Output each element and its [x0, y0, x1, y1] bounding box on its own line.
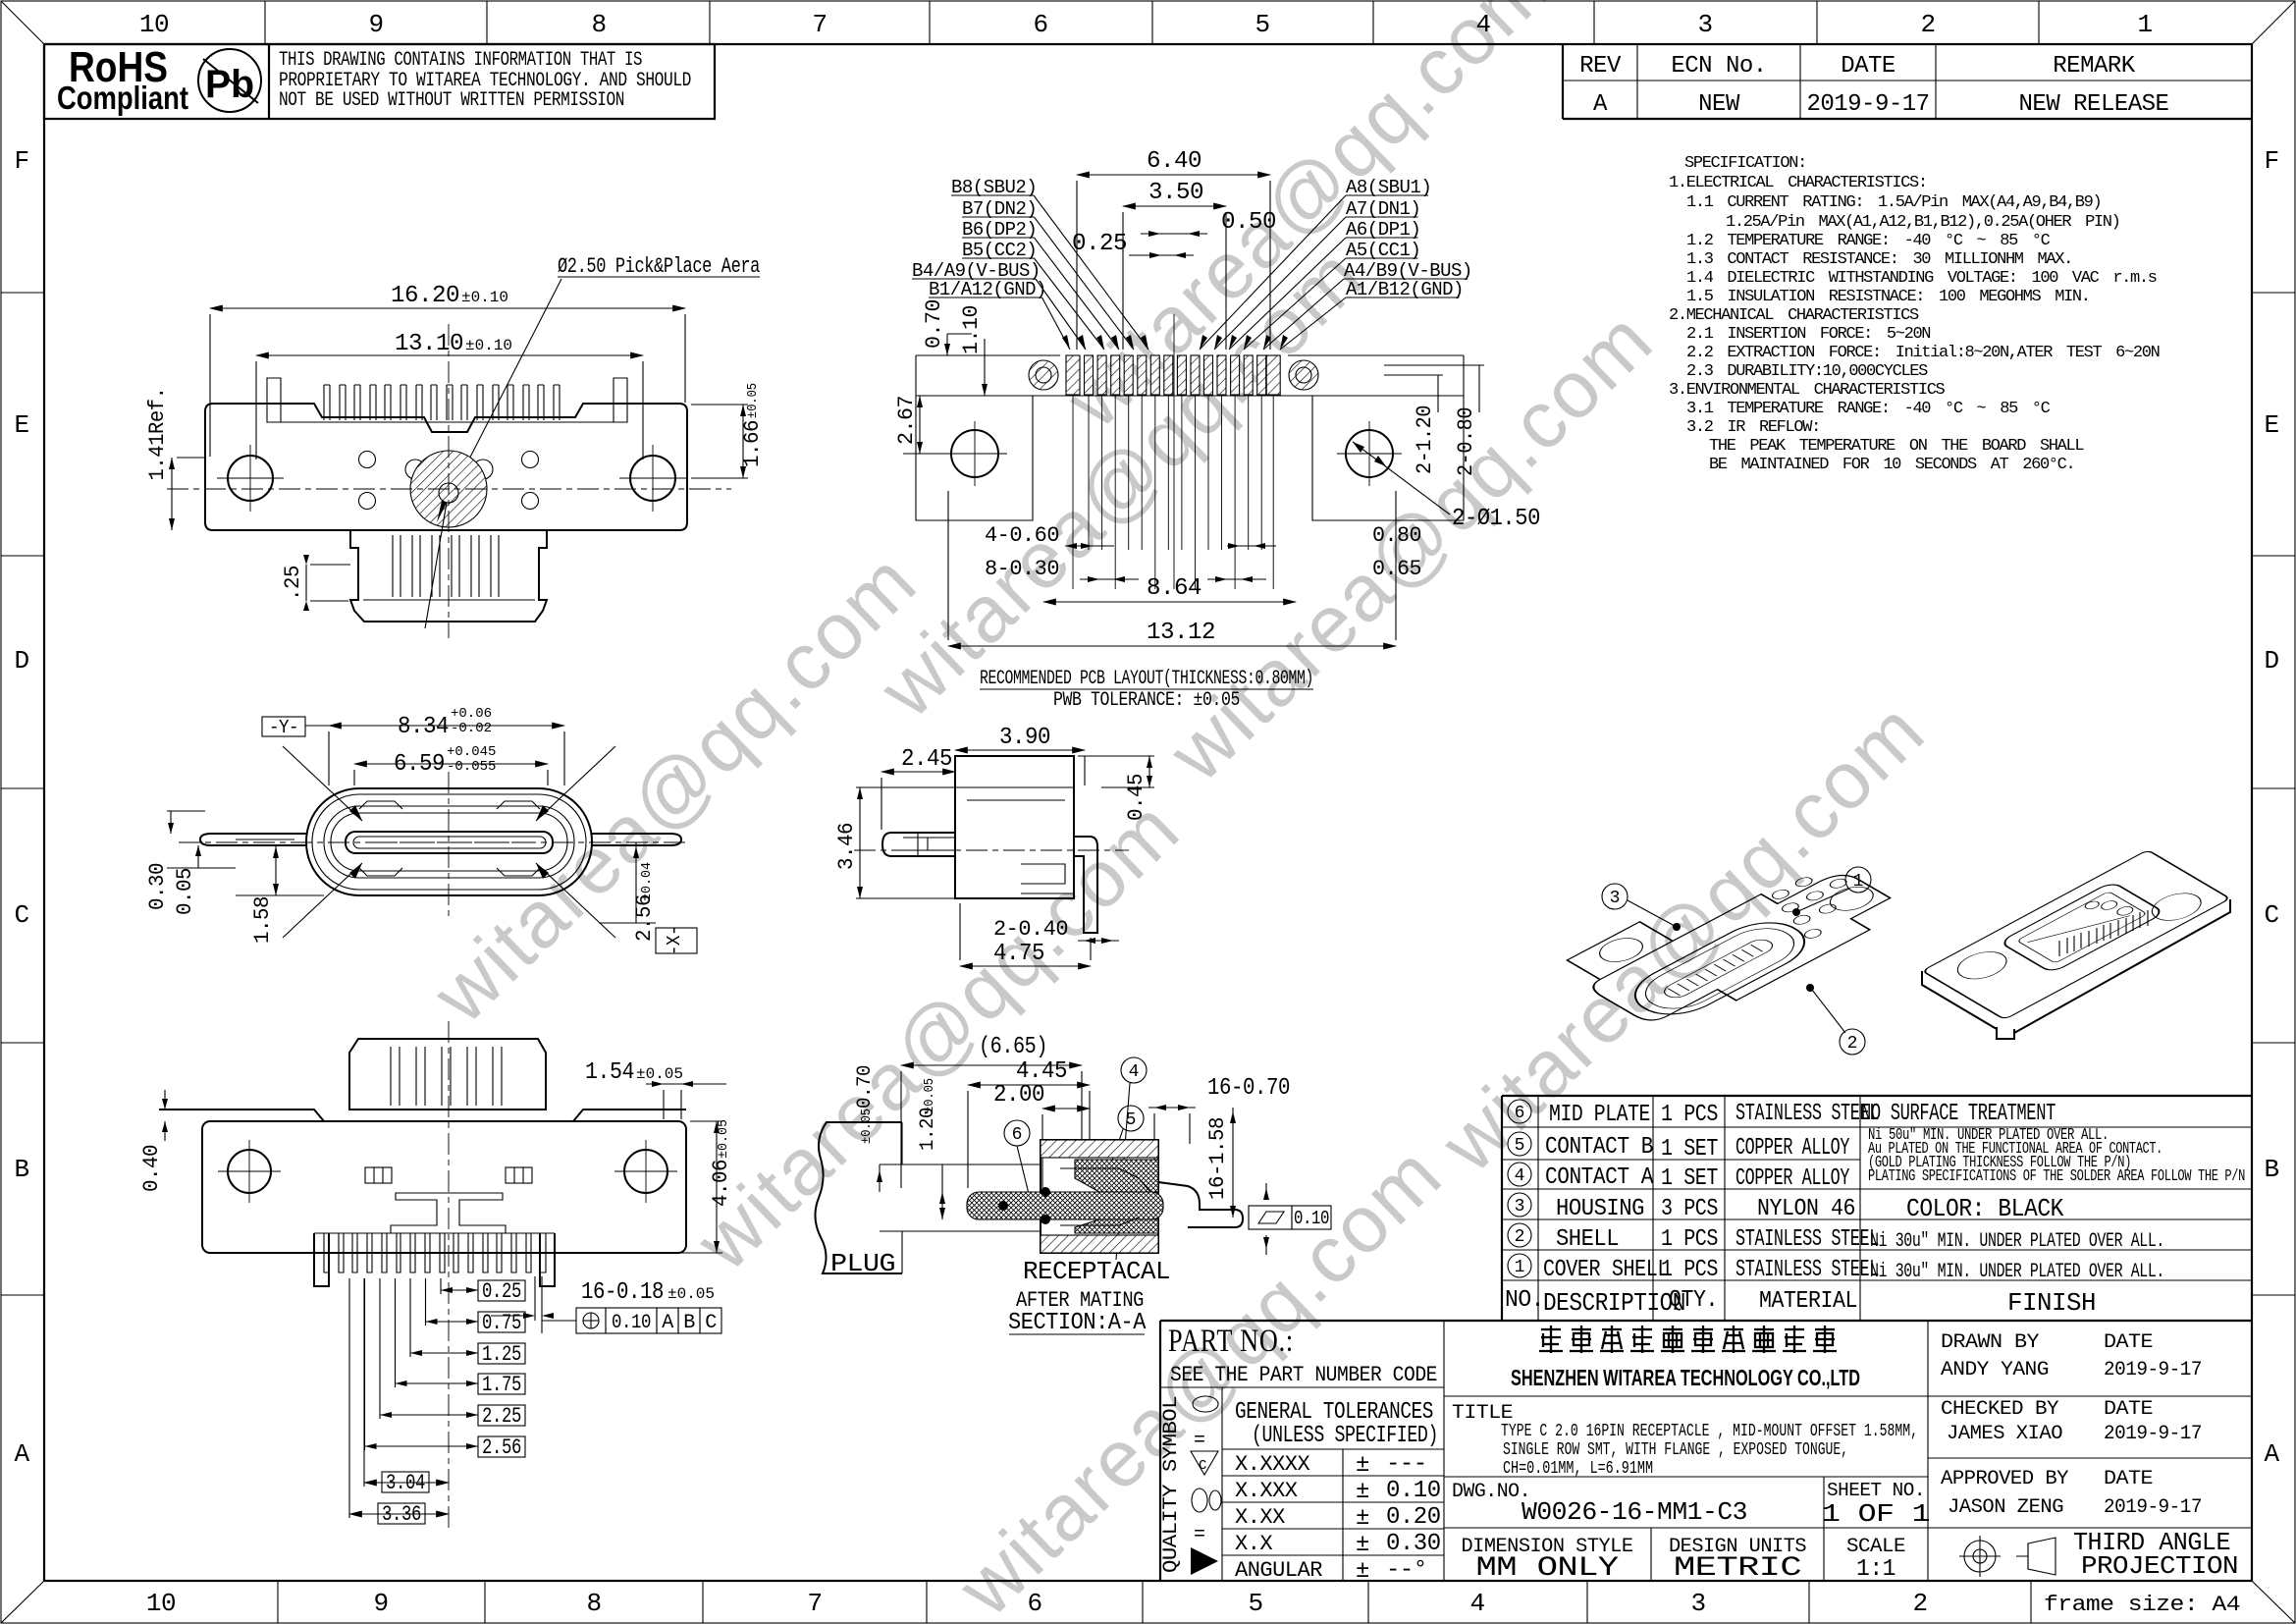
svg-text:2019-9-17: 2019-9-17	[2104, 1496, 2202, 1519]
svg-text:0.25: 0.25	[482, 1279, 521, 1304]
svg-text:---: ---	[1386, 1451, 1427, 1478]
svg-text:6.40: 6.40	[1147, 148, 1201, 175]
view2 big holes	[951, 430, 998, 477]
svg-text:RECOMMENDED PCB LAYOUT(THICKNE: RECOMMENDED PCB LAYOUT(THICKNESS:0.80MM)	[980, 668, 1313, 690]
svg-text:2-Ø1.50: 2-Ø1.50	[1452, 506, 1540, 532]
svg-text:NO.: NO.	[1505, 1287, 1544, 1314]
svg-text:0.05: 0.05	[173, 868, 197, 915]
svg-text:±0.05: ±0.05	[859, 1109, 875, 1144]
svg-text:FINISH: FINISH	[2007, 1288, 2096, 1318]
svg-text:10: 10	[139, 10, 169, 39]
svg-text:CH=0.01MM, L=6.91MM: CH=0.01MM, L=6.91MM	[1503, 1459, 1653, 1479]
svg-text:METRIC: METRIC	[1674, 1553, 1801, 1584]
svg-text:DATE: DATE	[2104, 1331, 2153, 1354]
view7 plug shell lines	[901, 1122, 903, 1164]
svg-text:2: 2	[1920, 10, 1935, 39]
svg-text:4.06: 4.06	[709, 1160, 733, 1207]
svg-text:5: 5	[1255, 10, 1269, 39]
svg-text:PWB TOLERANCE: ±0.05: PWB TOLERANCE: ±0.05	[1053, 689, 1240, 712]
svg-text:DATE: DATE	[2104, 1468, 2153, 1490]
svg-text:+0.045: +0.045	[447, 744, 496, 760]
svg-text:1 OF 1: 1 OF 1	[1822, 1499, 1930, 1529]
svg-text:DWG.NO.: DWG.NO.	[1452, 1481, 1530, 1503]
svg-text:MATERIAL: MATERIAL	[1759, 1288, 1857, 1315]
svg-text:13.10: 13.10	[395, 331, 463, 357]
svg-text:RECEPTACAL: RECEPTACAL	[1023, 1257, 1170, 1286]
view2 dim 0.25	[1129, 254, 1194, 256]
svg-text:STAINLESS STEEL: STAINLESS STEEL	[1735, 1257, 1879, 1283]
svg-text:0.70: 0.70	[854, 1065, 877, 1109]
view4 dim 2.45	[881, 771, 955, 773]
svg-text:1.41Ref.: 1.41Ref.	[145, 388, 170, 481]
svg-text:SHENZHEN WITAREA TECHNOLOGY CO: SHENZHEN WITAREA TECHNOLOGY CO.,LTD	[1511, 1365, 1860, 1390]
view1 small holes	[359, 452, 376, 468]
view2 2-dia1.50 leader	[1353, 442, 1450, 514]
svg-text:X.XX: X.XX	[1235, 1505, 1285, 1530]
svg-text:(6.65): (6.65)	[979, 1034, 1047, 1060]
svg-text:0.25: 0.25	[1072, 231, 1127, 257]
svg-text:F: F	[2264, 146, 2278, 176]
svg-text:4: 4	[1515, 1166, 1525, 1186]
svg-text:MID PLATE: MID PLATE	[1549, 1102, 1650, 1128]
view7 flatness frame	[1249, 1206, 1292, 1229]
svg-text:1: 1	[1515, 1258, 1525, 1277]
view4 body	[955, 756, 1074, 898]
svg-text:7: 7	[812, 10, 827, 39]
iso left balloon 3	[1602, 884, 1628, 909]
view1 mounting holes	[228, 456, 273, 501]
view2 center vertical line	[1173, 314, 1175, 589]
svg-text:8.64: 8.64	[1147, 575, 1201, 602]
BOM table grid	[1502, 1095, 2252, 1097]
view4 tongue left	[882, 833, 955, 856]
view6 left wing line	[159, 1110, 324, 1121]
view1 lower body	[350, 530, 547, 622]
view2 right cutout rect	[1312, 396, 1464, 520]
svg-text:SECTION:A-A: SECTION:A-A	[1008, 1310, 1147, 1336]
svg-text:Ø2.50 Pick&Place Aera: Ø2.50 Pick&Place Aera	[558, 254, 760, 279]
svg-text:=: =	[1194, 1524, 1205, 1546]
view1 dim 16.20	[210, 307, 685, 309]
svg-text:2: 2	[1847, 1034, 1858, 1054]
svg-text:2-1.20: 2-1.20	[1413, 406, 1437, 474]
svg-text:C: C	[14, 900, 28, 930]
view6 small rect windows	[365, 1167, 392, 1183]
svg-text:0.50: 0.50	[1221, 209, 1276, 236]
title block outer lines	[1159, 1321, 1161, 1581]
svg-text:COPPER ALLOY: COPPER ALLOY	[1735, 1135, 1849, 1162]
svg-text:-Y-: -Y-	[269, 717, 298, 738]
svg-text:2-0.80: 2-0.80	[1454, 407, 1478, 476]
svg-text:2019-9-17: 2019-9-17	[2104, 1423, 2202, 1445]
svg-text:7: 7	[807, 1589, 822, 1618]
svg-text:1.25A/Pin MAX(A1,A12,B1,B12),0: 1.25A/Pin MAX(A1,A12,B1,B12),0.25A(OHER …	[1726, 213, 2119, 232]
svg-text:1.3 CONTACT RESISTANCE: 30 MIL: 1.3 CONTACT RESISTANCE: 30 MILLIONHM MAX…	[1686, 250, 2072, 269]
view1 comb pins	[281, 421, 618, 423]
svg-text:B: B	[683, 1312, 695, 1334]
view3 -Y- datum box	[262, 717, 305, 736]
quality symbol column	[1221, 1387, 1223, 1581]
svg-text:16-0.18: 16-0.18	[581, 1279, 664, 1306]
view6 center I-beam slot	[391, 1193, 506, 1233]
svg-text:3.50: 3.50	[1148, 180, 1203, 206]
view7 plug outline	[815, 1122, 902, 1273]
svg-text:NYLON 46: NYLON 46	[1757, 1196, 1855, 1222]
view6 pitch ladder	[478, 1280, 525, 1301]
view1 dim 13.10	[256, 354, 643, 356]
view2 hatched pads	[1066, 355, 1280, 395]
svg-text:C: C	[705, 1312, 717, 1334]
svg-text:5: 5	[1515, 1136, 1525, 1156]
svg-text:3.46: 3.46	[834, 823, 859, 870]
view2 dim 13.12	[948, 645, 1396, 647]
general tolerances box	[1222, 1448, 1444, 1450]
svg-text:-0.055: -0.055	[447, 759, 496, 775]
svg-text:QTY.: QTY.	[1669, 1287, 1718, 1314]
svg-text:2.25: 2.25	[482, 1404, 521, 1429]
view7 receptacle block	[1041, 1140, 1158, 1253]
svg-text:4.75: 4.75	[993, 941, 1044, 967]
view1 centerlines	[448, 324, 450, 638]
svg-text:16-1.58: 16-1.58	[1205, 1117, 1230, 1200]
Pb crossed circle	[198, 49, 261, 112]
svg-text:16.20: 16.20	[391, 283, 459, 309]
svg-text:Ni 30u" MIN. UNDER PLATED OVER: Ni 30u" MIN. UNDER PLATED OVER ALL.	[1870, 1261, 2164, 1283]
svg-text:A: A	[2264, 1439, 2279, 1469]
svg-text:3: 3	[1697, 10, 1712, 39]
svg-text:0.40: 0.40	[139, 1145, 164, 1192]
svg-text:1.1 CURRENT RATING: 1.5A/Pin M: 1.1 CURRENT RATING: 1.5A/Pin MAX(A4,A9,B…	[1686, 193, 2101, 212]
svg-text:D: D	[2264, 646, 2278, 676]
svg-text:4.45: 4.45	[1016, 1058, 1067, 1085]
svg-text:1.66: 1.66	[740, 420, 765, 467]
svg-text:B: B	[2264, 1155, 2278, 1184]
view3 corner leader lines	[283, 746, 362, 821]
svg-text:+0.06: +0.06	[451, 706, 492, 722]
svg-text:2.2 EXTRACTION FORCE: Initial:: 2.2 EXTRACTION FORCE: Initial:8~20N,ATER…	[1686, 344, 2160, 362]
view3 left wing	[200, 834, 306, 845]
view3 centerlines	[448, 772, 450, 921]
svg-text:THE PEAK TEMPERATURE ON THE BO: THE PEAK TEMPERATURE ON THE BOARD SHALL	[1709, 437, 2084, 456]
svg-text:-0.02: -0.02	[451, 721, 492, 736]
view2 left cutout rect	[916, 396, 1033, 520]
svg-text:1:1: 1:1	[1856, 1556, 1896, 1583]
view3 dim 8.34	[329, 725, 564, 727]
svg-text:±0.05: ±0.05	[745, 383, 761, 418]
svg-text:4-0.60: 4-0.60	[985, 523, 1059, 548]
svg-text:W0026-16-MM1-C3: W0026-16-MM1-C3	[1522, 1497, 1747, 1527]
svg-text:±0.05: ±0.05	[636, 1065, 683, 1083]
svg-text:SPECIFICATION:: SPECIFICATION:	[1684, 154, 1806, 173]
view6 dim 3.04	[382, 1472, 429, 1492]
svg-text:1.2 TEMPERATURE RANGE: -40 °C: 1.2 TEMPERATURE RANGE: -40 °C ~ 85 °C	[1686, 232, 2051, 250]
svg-text:±: ±	[1356, 1452, 1369, 1479]
view6 centerline vertical	[448, 1021, 450, 1532]
view3 dim 6.59	[354, 763, 548, 765]
iso right plate thickness	[1922, 899, 2230, 1039]
svg-text:3.1 TEMPERATURE RANGE: -40 °C: 3.1 TEMPERATURE RANGE: -40 °C ~ 85 °C	[1686, 400, 2051, 418]
svg-text:6: 6	[1033, 10, 1047, 39]
svg-text:GENERAL TOLERANCES: GENERAL TOLERANCES	[1235, 1399, 1433, 1426]
svg-text:2.56: 2.56	[482, 1435, 521, 1460]
svg-text:CONTACT A: CONTACT A	[1545, 1164, 1654, 1191]
svg-text:X.XXXX: X.XXXX	[1235, 1452, 1310, 1477]
svg-text:=: =	[1194, 1430, 1205, 1452]
view2 pad extension lines down	[1072, 396, 1074, 589]
svg-text:1 SET: 1 SET	[1661, 1165, 1718, 1192]
view4 dim 3.90	[955, 749, 1085, 751]
svg-text:ECN No.: ECN No.	[1671, 53, 1766, 80]
svg-text:MM ONLY: MM ONLY	[1476, 1553, 1620, 1584]
view6 mounting holes	[228, 1150, 271, 1193]
svg-text:0.10: 0.10	[1294, 1208, 1329, 1229]
corner diagonals	[1, 1, 44, 44]
svg-text:±0.05: ±0.05	[922, 1078, 937, 1113]
svg-text:JASON ZENG: JASON ZENG	[1948, 1496, 2063, 1519]
view4 inner step details	[1021, 864, 1074, 893]
svg-text:A: A	[662, 1312, 673, 1334]
svg-text:Ni 30u" MIN. UNDER PLATED OVER: Ni 30u" MIN. UNDER PLATED OVER ALL.	[1870, 1230, 2164, 1253]
view2 dim 6.40	[1077, 174, 1270, 176]
bottom zone band dividers	[277, 1581, 279, 1623]
dwg no box	[1444, 1527, 2252, 1529]
svg-text:2019-9-17: 2019-9-17	[1806, 91, 1929, 118]
svg-text:DESCRIPTION: DESCRIPTION	[1543, 1288, 1685, 1318]
svg-text:A: A	[1593, 91, 1608, 118]
view2 pad strip outline	[916, 354, 1060, 356]
iso left balloon 1	[1845, 867, 1871, 893]
svg-text:C: C	[2264, 900, 2278, 930]
svg-text:-X-: -X-	[664, 926, 685, 955]
svg-text:frame size: A4: frame size: A4	[2044, 1593, 2240, 1617]
svg-text:--°: --°	[1386, 1557, 1427, 1584]
svg-text:DATE: DATE	[1841, 53, 1896, 80]
drawn/checked/approved boxes	[1928, 1457, 2252, 1459]
svg-text:ANGULAR: ANGULAR	[1235, 1558, 1322, 1583]
svg-text:2.MECHANICAL CHARACTERISTICS: 2.MECHANICAL CHARACTERISTICS	[1669, 306, 1919, 325]
svg-text:1.4 DIELECTRIC WITHSTANDING VO: 1.4 DIELECTRIC WITHSTANDING VOLTAGE: 100…	[1686, 269, 2157, 288]
svg-text:9: 9	[368, 10, 383, 39]
view2 dim 8.64	[1043, 601, 1296, 603]
svg-text:COPPER ALLOY: COPPER ALLOY	[1735, 1165, 1849, 1192]
svg-text:2: 2	[1515, 1227, 1525, 1247]
view3 latch bumps	[359, 801, 402, 809]
svg-text:B: B	[14, 1155, 28, 1184]
top zone band dividers	[264, 1, 266, 44]
svg-text:APPROVED BY: APPROVED BY	[1941, 1468, 2069, 1490]
svg-text:SHEET NO.: SHEET NO.	[1827, 1480, 1925, 1501]
svg-text:DRAWN BY: DRAWN BY	[1941, 1331, 2040, 1354]
svg-text:Pb: Pb	[205, 63, 254, 106]
svg-text:QUALITY SYMBOL: QUALITY SYMBOL	[1160, 1396, 1183, 1573]
svg-text:8.34: 8.34	[398, 714, 449, 740]
svg-text:SHELL: SHELL	[1556, 1226, 1619, 1253]
svg-text:3: 3	[1515, 1197, 1525, 1217]
svg-text:2.45: 2.45	[901, 746, 952, 773]
view7 top hatched slab	[1041, 1140, 1158, 1158]
svg-text:PLATING SPECIFICATIONS OF THE: PLATING SPECIFICATIONS OF THE SOLDER ARE…	[1868, 1167, 2245, 1186]
svg-text:DATE: DATE	[2104, 1398, 2153, 1421]
view6 right wing line	[573, 1110, 686, 1121]
view4 dim 4.75	[960, 965, 1091, 967]
isometric view right	[1922, 850, 2230, 1020]
svg-text:4: 4	[1469, 1589, 1484, 1618]
svg-text:COVER SHELL: COVER SHELL	[1543, 1257, 1669, 1283]
svg-text:2: 2	[1912, 1589, 1927, 1618]
svg-text:3.90: 3.90	[999, 725, 1050, 751]
view1 flange outline	[205, 404, 687, 530]
svg-text:1.ELECTRICAL CHARACTERISTICS:: 1.ELECTRICAL CHARACTERISTICS:	[1669, 174, 1927, 192]
svg-text:0.30: 0.30	[1386, 1531, 1441, 1557]
view6 dim 3.36	[378, 1503, 425, 1524]
svg-text:CHECKED BY: CHECKED BY	[1941, 1398, 2059, 1421]
svg-text:0.75: 0.75	[482, 1311, 521, 1335]
svg-text:10: 10	[146, 1589, 176, 1618]
quality symbols	[1193, 1396, 1218, 1412]
svg-text:2.00: 2.00	[993, 1082, 1044, 1109]
svg-text:8-0.30: 8-0.30	[985, 557, 1059, 581]
svg-text:0.65: 0.65	[1372, 557, 1421, 581]
view1 leader to center hole	[425, 503, 447, 628]
view7 balloons 4,5,6	[1121, 1057, 1147, 1083]
view7 inner contact details	[1060, 1168, 1150, 1225]
view4 right wing hook	[1074, 837, 1097, 933]
svg-text:D: D	[14, 646, 28, 676]
svg-text:16-0.70: 16-0.70	[1207, 1075, 1290, 1102]
svg-text:3: 3	[1610, 889, 1621, 908]
svg-text:0.45: 0.45	[1124, 774, 1148, 821]
svg-text:3.ENVIRONMENTAL CHARACTERISTI: 3.ENVIRONMENTAL CHARACTERISTICS	[1669, 381, 1946, 400]
svg-text:0.10: 0.10	[612, 1312, 651, 1334]
svg-text:8: 8	[591, 10, 606, 39]
svg-text:3: 3	[1690, 1589, 1705, 1618]
svg-text:SCALE: SCALE	[1846, 1536, 1905, 1558]
svg-text:JAMES XIAO: JAMES XIAO	[1947, 1423, 2062, 1445]
svg-text:(UNLESS SPECIFIED): (UNLESS SPECIFIED)	[1252, 1423, 1438, 1449]
svg-text:A: A	[14, 1439, 29, 1469]
view2 ring pads	[1029, 360, 1058, 390]
svg-text:±0.05: ±0.05	[716, 1119, 731, 1159]
right zone dividers	[2252, 292, 2295, 294]
svg-text:E: E	[14, 410, 28, 440]
view1 hatched pick circle	[410, 451, 487, 527]
iso right pin teeth	[2059, 910, 2148, 956]
svg-text:±0.10: ±0.10	[465, 337, 512, 354]
svg-text:1.5 INSULATION RESISTNACE: 100: 1.5 INSULATION RESISTNACE: 100 MEGOHMS M…	[1686, 288, 2090, 306]
svg-text:8: 8	[586, 1589, 601, 1618]
svg-text:NO SURFACE TREATMENT: NO SURFACE TREATMENT	[1861, 1101, 2056, 1127]
chinese company name (pseudo glyphs)	[1539, 1326, 1563, 1353]
svg-text:1.25: 1.25	[482, 1342, 521, 1367]
view2 dim 3.50	[1123, 205, 1226, 207]
left zone dividers	[1, 292, 44, 294]
svg-text:REV: REV	[1579, 53, 1622, 80]
svg-text:NEW RELEASE: NEW RELEASE	[2019, 91, 2169, 118]
svg-text:2.67: 2.67	[894, 396, 919, 445]
svg-text:NEW: NEW	[1698, 91, 1740, 118]
svg-text:1 PCS: 1 PCS	[1661, 1257, 1718, 1283]
svg-text:REMARK: REMARK	[2053, 53, 2136, 80]
svg-text:THIS DRAWING CONTAINS INFORMAT: THIS DRAWING CONTAINS INFORMATION THAT I…	[279, 49, 642, 72]
title box	[1444, 1476, 1928, 1478]
company box	[1444, 1395, 2252, 1397]
svg-text:HOUSING: HOUSING	[1556, 1196, 1644, 1222]
view6 bottom pin comb	[314, 1232, 555, 1234]
svg-text:9: 9	[373, 1589, 388, 1618]
svg-text:±0.04: ±0.04	[639, 862, 655, 901]
view3 right wing	[592, 834, 681, 845]
svg-text:1: 1	[1853, 872, 1864, 892]
svg-text:0.80: 0.80	[1372, 523, 1421, 548]
svg-text:PLUG: PLUG	[830, 1249, 895, 1278]
svg-text:6.59: 6.59	[394, 751, 445, 778]
svg-text:TYPE C 2.0 16PIN RECEPTACLE ,: TYPE C 2.0 16PIN RECEPTACLE , MID-MOUNT …	[1501, 1422, 1918, 1441]
svg-text:±: ±	[1356, 1532, 1369, 1558]
svg-text:±0.10: ±0.10	[461, 289, 508, 306]
view7 right contact hook	[1158, 1182, 1243, 1227]
svg-text:C: C	[1199, 1458, 1206, 1474]
svg-text:3 PCS: 3 PCS	[1661, 1196, 1718, 1222]
svg-text:SINGLE ROW SMT, WITH FLANGE ,: SINGLE ROW SMT, WITH FLANGE , EXPOSED TO…	[1503, 1440, 1848, 1460]
view6 top connector block	[349, 1039, 546, 1110]
svg-text:1.54: 1.54	[585, 1059, 634, 1086]
isometric view left	[1553, 840, 1909, 1035]
svg-text:±: ±	[1356, 1505, 1369, 1532]
svg-text:1 PCS: 1 PCS	[1661, 1226, 1718, 1253]
view3 tongue	[346, 832, 553, 853]
tolerance rows	[1342, 1449, 1344, 1581]
BOM circled item numbers	[1508, 1100, 1531, 1123]
svg-text:0.70: 0.70	[922, 299, 946, 349]
svg-text:STAINLESS STEEL: STAINLESS STEEL	[1735, 1226, 1879, 1253]
svg-text:0.30: 0.30	[145, 863, 170, 910]
svg-text:STAINLESS STEEL: STAINLESS STEEL	[1735, 1101, 1879, 1127]
svg-text:13.12: 13.12	[1147, 620, 1215, 646]
svg-text:SEE THE PART NUMBER CODE: SEE THE PART NUMBER CODE	[1170, 1363, 1437, 1387]
svg-text:5: 5	[1126, 1110, 1137, 1130]
svg-text:NOT BE USED WITHOUT WRITTEN PE: NOT BE USED WITHOUT WRITTEN PERMISSION	[279, 89, 624, 112]
svg-text:.25: .25	[281, 566, 305, 601]
svg-text:3.2 IR REFLOW:: 3.2 IR REFLOW:	[1686, 418, 1820, 437]
svg-text:±0.05: ±0.05	[667, 1285, 715, 1303]
view6 flange body	[202, 1121, 686, 1253]
svg-text:1: 1	[2137, 10, 2152, 39]
svg-text:6: 6	[1027, 1589, 1041, 1618]
svg-text:X.X: X.X	[1235, 1532, 1272, 1556]
view4 centerline	[854, 849, 1129, 851]
svg-text:1.58: 1.58	[250, 896, 275, 944]
svg-text:1.10: 1.10	[959, 305, 984, 354]
svg-text:CONTACT B: CONTACT B	[1545, 1134, 1653, 1161]
svg-text:F: F	[14, 146, 28, 176]
RoHS compliant block	[44, 44, 715, 119]
revision table	[1562, 44, 1564, 119]
svg-text:±: ±	[1356, 1558, 1369, 1585]
svg-text:2.1 INSERTION FORCE: 5~20N: 2.1 INSERTION FORCE: 5~20N	[1686, 325, 1930, 344]
svg-text:0.20: 0.20	[1386, 1504, 1441, 1531]
svg-text:4: 4	[1475, 10, 1490, 39]
svg-text:0.10: 0.10	[1386, 1478, 1441, 1504]
part no box	[1160, 1386, 1444, 1388]
iso left balloon 2	[1840, 1029, 1865, 1055]
third angle projection symbol	[1964, 1541, 1996, 1572]
svg-text:6: 6	[1515, 1104, 1525, 1123]
svg-text:6: 6	[1012, 1125, 1023, 1145]
view7 bottom hatched slab	[1041, 1235, 1158, 1253]
svg-text:1 SET: 1 SET	[1661, 1136, 1718, 1163]
view2 dim 0.50	[1141, 233, 1207, 235]
view3 oval shell outlines	[306, 788, 592, 895]
